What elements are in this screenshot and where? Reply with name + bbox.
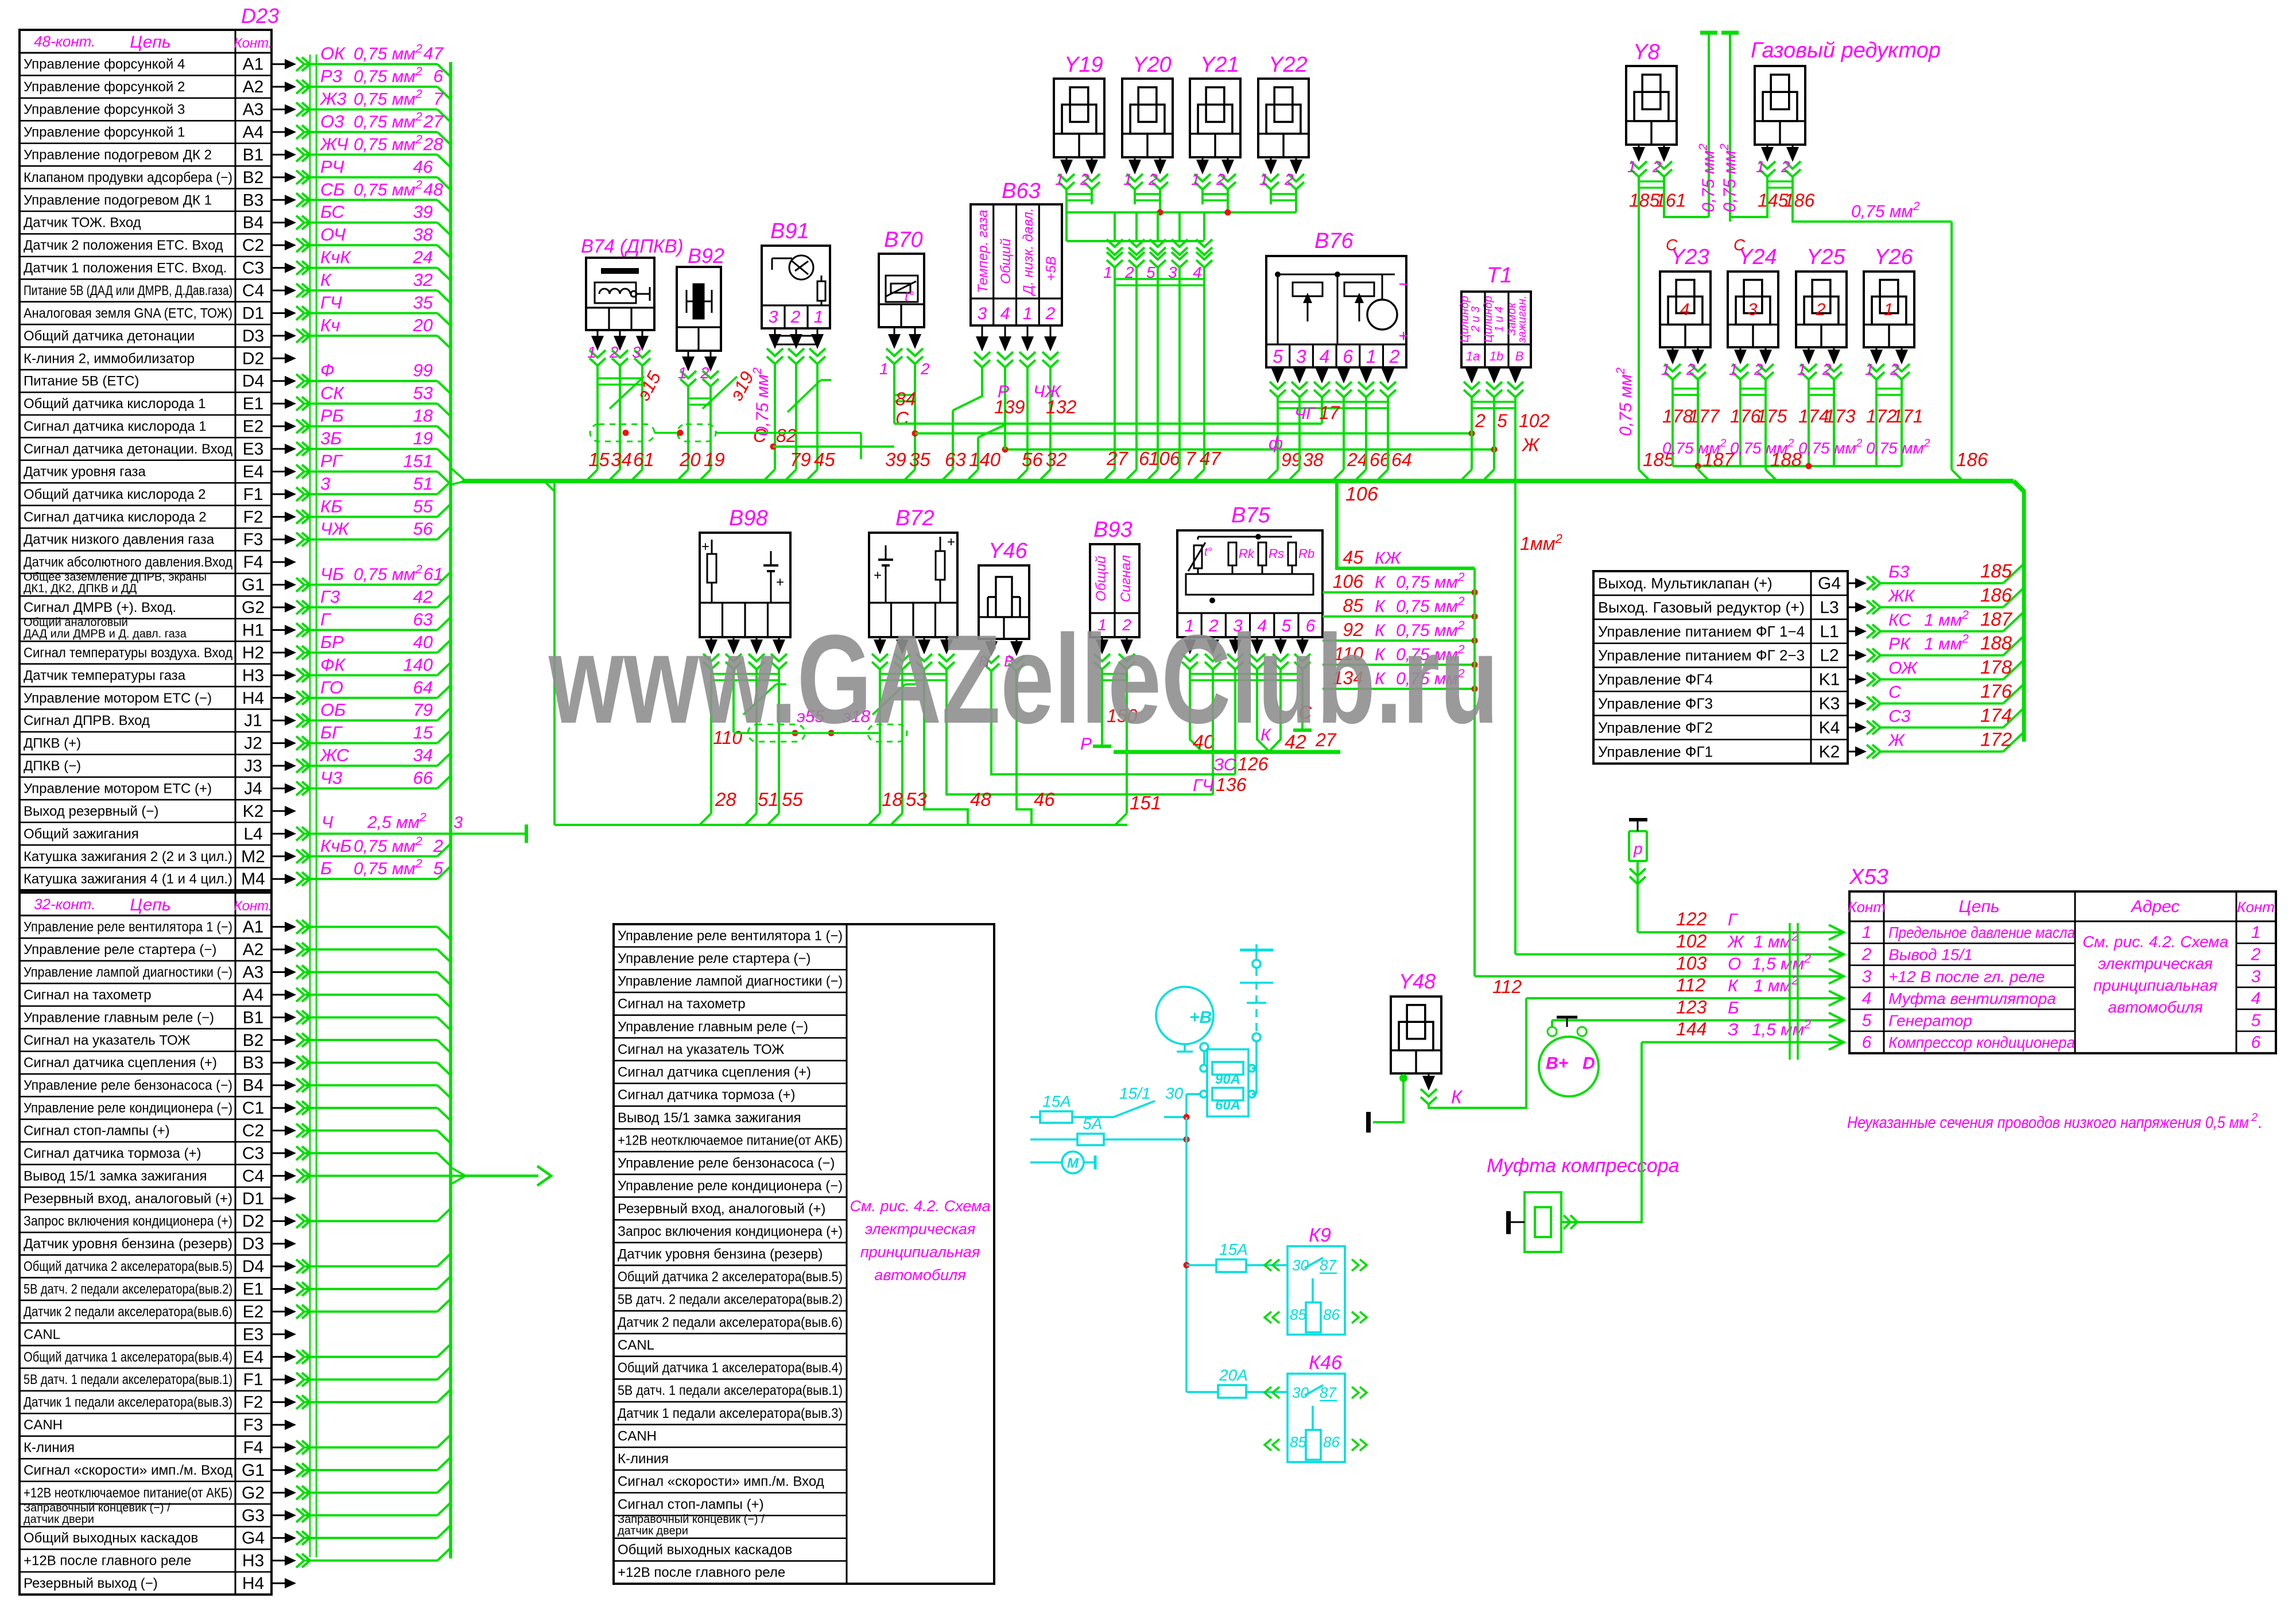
svg-text:Сигнал температуры воздуха. Вх: Сигнал температуры воздуха. Вход <box>24 645 232 661</box>
svg-text:3: 3 <box>769 308 778 327</box>
svg-text:В76: В76 <box>1314 229 1353 253</box>
svg-text:+12В после главного реле: +12В после главного реле <box>618 1565 785 1580</box>
svg-text:E1: E1 <box>243 394 264 413</box>
svg-text:Сигнал на тахометр: Сигнал на тахометр <box>618 997 746 1012</box>
svg-text:Темпер. газа: Темпер. газа <box>975 210 991 293</box>
svg-text:K1: K1 <box>1819 670 1840 689</box>
svg-text:Общее заземление ДПРВ, экраны: Общее заземление ДПРВ, экраны <box>24 571 207 584</box>
svg-text:+12В после главного реле: +12В после главного реле <box>24 1553 191 1569</box>
svg-text:Адрес: Адрес <box>2130 897 2180 916</box>
svg-text:3: 3 <box>320 474 330 494</box>
svg-text:15А: 15А <box>1042 1092 1071 1110</box>
svg-text:18: 18 <box>882 789 903 810</box>
svg-text:Rk: Rk <box>1239 546 1255 561</box>
svg-text:Сигнал «скорости» имп./м. Вход: Сигнал «скорости» имп./м. Вход <box>24 1463 232 1478</box>
svg-text:177: 177 <box>1689 406 1720 427</box>
svg-text:6: 6 <box>1343 346 1353 367</box>
svg-text:Управление лампой диагностики: Управление лампой диагностики (−) <box>24 964 232 980</box>
svg-text:G1: G1 <box>242 1461 265 1480</box>
svg-text:19: 19 <box>413 428 433 448</box>
svg-text:Катушка зажигания 2 (2 и 3 ци: Катушка зажигания 2 (2 и 3 цил.) <box>24 849 232 864</box>
svg-text:БР: БР <box>320 632 344 652</box>
svg-text:Заправочный концевик (−) /: Заправочный концевик (−) / <box>24 1502 170 1514</box>
svg-text:82: 82 <box>776 425 797 446</box>
svg-text:Управление питанием ФГ 2−3: Управление питанием ФГ 2−3 <box>1598 647 1805 664</box>
svg-text:Y19: Y19 <box>1064 53 1103 77</box>
svg-text:30: 30 <box>1292 1384 1309 1401</box>
svg-text:Муфта компрессора: Муфта компрессора <box>1487 1155 1680 1177</box>
svg-text:2: 2 <box>2251 1111 2258 1124</box>
svg-text:БГ: БГ <box>320 723 343 743</box>
svg-text:Датчик ТОЖ. Вход: Датчик ТОЖ. Вход <box>24 215 141 231</box>
svg-text:ЖК: ЖК <box>1887 587 1916 606</box>
svg-text:186: 186 <box>1784 190 1815 211</box>
svg-text:+12В неотключаемое питание(от: +12В неотключаемое питание(от АКБ) <box>618 1133 843 1148</box>
svg-text:Датчик 1 педали акселератора(в: Датчик 1 педали акселератора(выв.3) <box>618 1406 843 1421</box>
svg-text:Питание 5В (ЕТС): Питание 5В (ЕТС) <box>24 374 139 389</box>
svg-text:102: 102 <box>1519 410 1550 431</box>
svg-text:175: 175 <box>1756 406 1787 427</box>
svg-text:L2: L2 <box>1820 646 1839 665</box>
svg-text:188: 188 <box>1980 633 2012 654</box>
svg-text:4: 4 <box>2251 989 2261 1008</box>
svg-text:151: 151 <box>1130 792 1161 813</box>
svg-text:90А: 90А <box>1215 1072 1240 1087</box>
svg-text:3: 3 <box>632 343 641 361</box>
svg-text:38: 38 <box>1303 449 1324 470</box>
svg-text:Общий выходных каскадов: Общий выходных каскадов <box>24 1530 198 1546</box>
svg-text:Генератор: Генератор <box>1888 1011 1972 1029</box>
svg-text:39: 39 <box>413 202 433 222</box>
svg-text:66: 66 <box>413 767 433 788</box>
svg-text:20: 20 <box>413 315 433 335</box>
svg-text:0,75 мм2: 0,75 мм2 <box>1697 144 1718 212</box>
svg-text:G2: G2 <box>242 598 265 617</box>
svg-text:122: 122 <box>1676 909 1707 929</box>
svg-text:К-линия: К-линия <box>618 1451 669 1467</box>
svg-text:106: 106 <box>1345 483 1378 505</box>
svg-text:2: 2 <box>1475 410 1486 431</box>
svg-text:2: 2 <box>1045 304 1056 323</box>
svg-text:55: 55 <box>413 496 433 516</box>
svg-text:С: С <box>1733 236 1746 254</box>
svg-text:86: 86 <box>1323 1433 1340 1451</box>
svg-text:5В датч. 1 педали акселератора: 5В датч. 1 педали акселератора(выв.1) <box>24 1372 232 1387</box>
svg-text:42: 42 <box>413 587 433 607</box>
svg-text:датчик двери: датчик двери <box>618 1525 688 1537</box>
svg-text:К: К <box>1451 1087 1463 1107</box>
svg-text:ЖЧ: ЖЧ <box>319 134 348 154</box>
svg-text:В75: В75 <box>1231 503 1270 528</box>
svg-text:K3: K3 <box>1819 694 1840 713</box>
svg-text:5: 5 <box>1497 410 1507 431</box>
svg-text:85: 85 <box>1290 1306 1306 1323</box>
svg-text:E4: E4 <box>243 1348 264 1367</box>
svg-text:1: 1 <box>1191 170 1200 188</box>
svg-text:D2: D2 <box>242 349 264 368</box>
svg-text:Д. низк. давл.: Д. низк. давл. <box>1021 208 1036 296</box>
svg-text:H4: H4 <box>242 689 264 708</box>
svg-text:24: 24 <box>1347 449 1368 470</box>
svg-text:3: 3 <box>1296 346 1306 367</box>
svg-text:Датчик 2 педали акселератора(в: Датчик 2 педали акселератора(выв.6) <box>24 1304 232 1320</box>
svg-text:0,75 мм2: 0,75 мм2 <box>354 110 422 131</box>
svg-text:Управление главным реле (−): Управление главным реле (−) <box>618 1019 808 1034</box>
svg-text:G3: G3 <box>242 1506 265 1525</box>
svg-text:Управление реле вентилятора 1: Управление реле вентилятора 1 (−) <box>24 920 232 935</box>
svg-text:Кч: Кч <box>320 315 340 335</box>
svg-text:47: 47 <box>424 44 444 64</box>
svg-text:1b: 1b <box>1490 349 1503 363</box>
svg-text:В72: В72 <box>895 506 934 530</box>
svg-text:ЖС: ЖС <box>319 745 350 765</box>
svg-text:2: 2 <box>920 360 930 378</box>
svg-text:Муфта вентилятора: Муфта вентилятора <box>1888 990 2056 1007</box>
svg-text:электрическая: электрическая <box>2098 955 2213 972</box>
svg-text:Общий датчика кислорода 1: Общий датчика кислорода 1 <box>24 396 205 412</box>
svg-text:О3: О3 <box>320 111 344 131</box>
svg-text:6: 6 <box>433 66 444 86</box>
svg-text:принципиальная: принципиальная <box>2093 976 2217 994</box>
svg-text:E2: E2 <box>243 1302 264 1321</box>
svg-text:Сигнал: Сигнал <box>1118 555 1134 602</box>
svg-text:КС: КС <box>1888 611 1911 630</box>
svg-text:2: 2 <box>609 343 619 361</box>
svg-text:1: 1 <box>1627 158 1636 176</box>
svg-text:Общий зажигания: Общий зажигания <box>24 826 139 842</box>
svg-text:K2: K2 <box>1819 742 1840 761</box>
svg-text:2: 2 <box>1890 360 1899 378</box>
svg-text:186: 186 <box>1980 584 2012 606</box>
svg-text:B2: B2 <box>243 1031 264 1050</box>
svg-text:ФК: ФК <box>320 654 346 674</box>
svg-text:Управление ФГ1: Управление ФГ1 <box>1598 743 1713 760</box>
svg-text:Управление реле бензонасоса (−: Управление реле бензонасоса (−) <box>618 1156 835 1171</box>
svg-text:39: 39 <box>885 449 906 470</box>
svg-text:РГ: РГ <box>320 451 343 471</box>
svg-text:Сигнал ДПРВ. Вход: Сигнал ДПРВ. Вход <box>24 713 150 728</box>
svg-text:ОК: ОК <box>320 44 346 64</box>
svg-text:3Б: 3Б <box>320 428 342 448</box>
svg-text:Y21: Y21 <box>1200 53 1239 77</box>
svg-text:2: 2 <box>2251 945 2261 964</box>
svg-text:7: 7 <box>1185 448 1197 469</box>
svg-text:A4: A4 <box>243 986 264 1005</box>
svg-text:КЖ: КЖ <box>1375 549 1402 568</box>
svg-text:Y46: Y46 <box>988 539 1027 563</box>
svg-text:15А: 15А <box>1219 1240 1248 1258</box>
svg-text:Конт: Конт <box>1848 898 1886 916</box>
svg-text:Резервный вход, аналоговый (+): Резервный вход, аналоговый (+) <box>24 1191 232 1207</box>
svg-text:ОЖ: ОЖ <box>1888 659 1918 678</box>
svg-text:CANH: CANH <box>24 1417 63 1433</box>
svg-text:Сигнал ДМРВ (+). Вход.: Сигнал ДМРВ (+). Вход. <box>24 600 176 615</box>
svg-text:D3: D3 <box>242 1235 264 1254</box>
svg-text:Управление мотором ЕТС (+): Управление мотором ЕТС (+) <box>24 781 212 796</box>
svg-text:G2: G2 <box>242 1483 265 1502</box>
svg-text:Резервный вход, аналоговый (+): Резервный вход, аналоговый (+) <box>618 1201 825 1216</box>
svg-text:О: О <box>1728 955 1741 974</box>
svg-text:H3: H3 <box>242 666 264 685</box>
svg-text:L4: L4 <box>243 824 262 843</box>
svg-text:2: 2 <box>1216 170 1225 188</box>
svg-text:1: 1 <box>1661 360 1670 378</box>
svg-text:H4: H4 <box>242 1574 264 1593</box>
svg-text:Компрессор кондиционера: Компрессор кондиционера <box>1888 1034 2075 1052</box>
svg-text:Rs: Rs <box>1269 546 1284 561</box>
svg-text:G4: G4 <box>242 1529 265 1548</box>
svg-text:1,5 мм2: 1,5 мм2 <box>1752 952 1811 974</box>
svg-text:0,75 мм2: 0,75 мм2 <box>354 178 422 199</box>
svg-text:ДАД или ДМРВ и Д. давл. газа: ДАД или ДМРВ и Д. давл. газа <box>24 627 187 640</box>
svg-text:C4: C4 <box>242 1166 264 1185</box>
svg-text:J1: J1 <box>244 711 262 730</box>
svg-text:Датчик уровня бензина (резерв): Датчик уровня бензина (резерв) <box>618 1246 823 1262</box>
svg-text:5: 5 <box>2251 1011 2261 1030</box>
svg-text:Б: Б <box>320 858 332 878</box>
svg-text:Управление лампой диагностики: Управление лампой диагностики (−) <box>618 974 843 989</box>
svg-text:КчК: КчК <box>320 247 351 267</box>
svg-text:Сигнал на указатель ТОЖ: Сигнал на указатель ТОЖ <box>618 1042 784 1057</box>
svg-text:61: 61 <box>424 564 443 584</box>
svg-text:D23: D23 <box>241 4 279 28</box>
svg-text:2: 2 <box>1816 300 1826 319</box>
svg-text:Р3: Р3 <box>320 66 342 86</box>
svg-text:−: − <box>1398 275 1409 294</box>
svg-text:В74 (ДПКВ): В74 (ДПКВ) <box>581 235 683 257</box>
svg-text:D1: D1 <box>242 304 264 323</box>
svg-text:Ч3: Ч3 <box>320 767 342 788</box>
svg-text:H3: H3 <box>242 1552 264 1571</box>
svg-text:28: 28 <box>423 134 444 154</box>
svg-text:2: 2 <box>1686 360 1696 378</box>
svg-text:1: 1 <box>1023 304 1033 323</box>
svg-text:17: 17 <box>1319 402 1340 423</box>
svg-text:51: 51 <box>413 474 433 494</box>
svg-text:С: С <box>895 408 909 429</box>
svg-text:0,75 мм2: 0,75 мм2 <box>354 65 422 86</box>
svg-text:Г: Г <box>320 609 331 629</box>
svg-text:+12В неотключаемое питание(от: +12В неотключаемое питание(от АКБ) <box>24 1485 232 1501</box>
svg-text:40: 40 <box>413 632 433 652</box>
svg-text:Сигнал стоп-лампы (+): Сигнал стоп-лампы (+) <box>618 1496 764 1512</box>
svg-text:CANH: CANH <box>618 1428 657 1444</box>
svg-text:84: 84 <box>895 389 916 409</box>
svg-text:35: 35 <box>909 449 930 470</box>
svg-text:5: 5 <box>433 858 444 878</box>
svg-text:F3: F3 <box>243 530 263 549</box>
svg-text:B3: B3 <box>243 191 264 210</box>
svg-text:1: 1 <box>1123 170 1133 188</box>
svg-text:0,75 мм2: 0,75 мм2 <box>1718 144 1739 212</box>
svg-text:Управление реле кондиционера (: Управление реле кондиционера (−) <box>24 1100 232 1116</box>
svg-text:Ж3: Ж3 <box>319 89 347 109</box>
svg-text:автомобиля: автомобиля <box>874 1266 965 1284</box>
svg-text:СК: СК <box>320 383 344 403</box>
svg-text:D4: D4 <box>242 1257 264 1276</box>
svg-text:Сигнал датчика кислорода 2: Сигнал датчика кислорода 2 <box>24 509 207 525</box>
svg-text:32: 32 <box>1046 449 1067 470</box>
svg-text:t°: t° <box>1204 546 1212 559</box>
svg-text:139: 139 <box>994 397 1025 417</box>
svg-text:0,75 мм2: 0,75 мм2 <box>1798 437 1863 457</box>
svg-text:103: 103 <box>1676 953 1707 974</box>
svg-text:В98: В98 <box>729 506 768 530</box>
svg-text:В70: В70 <box>884 228 923 252</box>
svg-text:Датчик 2 положения ЕТС. Вход: Датчик 2 положения ЕТС. Вход <box>24 238 223 253</box>
svg-text:К9: К9 <box>1309 1224 1331 1246</box>
svg-text:45: 45 <box>814 449 835 470</box>
svg-text:B2: B2 <box>243 168 264 187</box>
svg-text:Y20: Y20 <box>1133 53 1172 77</box>
svg-text:t°: t° <box>905 289 914 304</box>
svg-text:64: 64 <box>1391 449 1412 470</box>
svg-text:С: С <box>753 425 767 446</box>
svg-text:1: 1 <box>1797 360 1806 378</box>
svg-text:ЧГ: ЧГ <box>1294 404 1317 423</box>
svg-text:L1: L1 <box>1820 622 1839 641</box>
svg-text:35: 35 <box>413 292 433 312</box>
svg-text:Управление реле бензонасоса (−: Управление реле бензонасоса (−) <box>24 1078 232 1094</box>
svg-text:E1: E1 <box>243 1280 264 1299</box>
svg-text:З: З <box>1728 1021 1738 1040</box>
svg-text:0,75 мм2: 0,75 мм2 <box>354 835 422 856</box>
svg-text:15: 15 <box>588 449 610 470</box>
svg-text:Датчик температуры газа: Датчик температуры газа <box>24 668 186 683</box>
svg-text:2: 2 <box>790 308 801 327</box>
svg-text:5: 5 <box>1862 1011 1872 1030</box>
svg-text:186: 186 <box>1956 449 1988 470</box>
svg-text:1: 1 <box>678 364 687 382</box>
svg-text:+: + <box>776 575 784 590</box>
svg-text:1: 1 <box>1366 346 1376 367</box>
svg-text:15/1: 15/1 <box>1119 1084 1151 1102</box>
svg-text:30: 30 <box>1165 1084 1184 1102</box>
svg-text:Запрос включения кондиционера: Запрос включения кондиционера (+) <box>618 1224 843 1239</box>
svg-text:датчик двери: датчик двери <box>24 1513 94 1526</box>
svg-text:Y22: Y22 <box>1269 53 1308 77</box>
svg-text:Управление форсункой 2: Управление форсункой 2 <box>24 79 185 95</box>
svg-text:В63: В63 <box>1002 179 1041 203</box>
svg-text:60А: 60А <box>1215 1098 1240 1113</box>
svg-text:86: 86 <box>1323 1306 1340 1323</box>
svg-text:1: 1 <box>1259 170 1269 188</box>
svg-text:48: 48 <box>970 789 991 810</box>
svg-text:176: 176 <box>1980 680 2012 701</box>
svg-text:79: 79 <box>413 700 433 720</box>
svg-text:КчБ: КчБ <box>320 836 352 856</box>
svg-text:Цепь: Цепь <box>130 33 170 52</box>
svg-text:Выход. Газовый редуктор (+): Выход. Газовый редуктор (+) <box>1598 599 1805 616</box>
svg-text:Сигнал датчика кислорода 1: Сигнал датчика кислорода 1 <box>24 419 207 435</box>
svg-text:+В: +В <box>1189 1008 1212 1027</box>
svg-text:.: . <box>2258 1114 2263 1132</box>
svg-text:L3: L3 <box>1820 598 1839 617</box>
svg-text:0,75 мм2: 0,75 мм2 <box>354 563 422 584</box>
svg-text:Сигнал датчика сцепления (+): Сигнал датчика сцепления (+) <box>618 1065 811 1080</box>
svg-text:5В датч. 1 педали акселератора: 5В датч. 1 педали акселератора(выв.1) <box>618 1383 843 1398</box>
svg-text:136: 136 <box>1216 774 1247 795</box>
svg-text:F1: F1 <box>243 485 263 504</box>
svg-text:F2: F2 <box>243 1393 263 1412</box>
svg-text:1 и 4: 1 и 4 <box>1493 307 1506 332</box>
svg-text:79: 79 <box>790 449 811 470</box>
svg-text:Датчик 1 педали акселератора(в: Датчик 1 педали акселератора(выв.3) <box>24 1395 232 1410</box>
svg-text:Общий датчика 1 акселератора(в: Общий датчика 1 акселератора(выв.4) <box>24 1350 232 1365</box>
svg-text:B1: B1 <box>243 1008 264 1027</box>
svg-text:J4: J4 <box>244 779 262 798</box>
svg-text:47: 47 <box>1200 448 1221 469</box>
svg-text:В+: В+ <box>1546 1054 1568 1073</box>
svg-text:1,5 мм2: 1,5 мм2 <box>1752 1018 1811 1040</box>
svg-text:ЗС: ЗС <box>1213 755 1236 774</box>
svg-text:Сигнал датчика детонации. Вход: Сигнал датчика детонации. Вход <box>24 441 232 457</box>
svg-text:7: 7 <box>433 89 444 109</box>
svg-text:6: 6 <box>2251 1033 2261 1052</box>
svg-text:1: 1 <box>2251 923 2261 942</box>
svg-text:4: 4 <box>1000 304 1010 323</box>
svg-text:Управление реле кондиционера (: Управление реле кондиционера (−) <box>618 1178 843 1194</box>
svg-text:Сигнал на указатель ТОЖ: Сигнал на указатель ТОЖ <box>24 1033 190 1048</box>
svg-text:102: 102 <box>1676 930 1707 951</box>
svg-text:+: + <box>947 534 955 550</box>
svg-text:A2: A2 <box>243 77 264 96</box>
svg-text:Общий выходных каскадов: Общий выходных каскадов <box>618 1542 792 1558</box>
svg-text:Управление форсункой 4: Управление форсункой 4 <box>24 57 185 72</box>
svg-text:Ф: Ф <box>320 360 335 381</box>
svg-text:30: 30 <box>1292 1257 1309 1274</box>
svg-text:Датчик 1 положения ЕТС. Вход.: Датчик 1 положения ЕТС. Вход. <box>24 261 227 276</box>
svg-text:Управление ФГ4: Управление ФГ4 <box>1598 671 1713 688</box>
svg-text:В92: В92 <box>688 244 724 267</box>
svg-text:Управление реле стартера (−): Управление реле стартера (−) <box>24 942 216 957</box>
svg-text:187: 187 <box>1702 449 1735 470</box>
svg-text:См. рис. 4.2. Схема: См. рис. 4.2. Схема <box>2082 933 2228 951</box>
svg-text:СБ: СБ <box>320 179 345 199</box>
svg-text:зажиган.: зажиган. <box>1516 296 1529 343</box>
svg-text:34: 34 <box>413 745 433 765</box>
svg-text:48: 48 <box>424 179 444 199</box>
svg-text:2: 2 <box>1284 170 1294 188</box>
svg-text:Управление мотором ЕТС (−): Управление мотором ЕТС (−) <box>24 691 212 706</box>
svg-text:В: В <box>1515 349 1524 363</box>
svg-text:Неуказанные сечения проводов н: Неуказанные сечения проводов низкого нап… <box>1847 1114 2249 1132</box>
svg-text:Общий датчика детонации: Общий датчика детонации <box>24 328 195 344</box>
svg-text:Б3: Б3 <box>1888 563 1910 581</box>
svg-text:1: 1 <box>1884 300 1894 319</box>
svg-text:5: 5 <box>1273 346 1283 367</box>
svg-text:2: 2 <box>1148 170 1158 188</box>
svg-text:Ж: Ж <box>1727 932 1744 951</box>
svg-text:5А: 5А <box>1083 1115 1102 1133</box>
svg-text:161: 161 <box>1655 190 1686 211</box>
svg-text:K4: K4 <box>1819 718 1840 737</box>
svg-text:Цепь: Цепь <box>130 895 170 914</box>
svg-text:К46: К46 <box>1309 1352 1342 1374</box>
svg-text:ДПКВ (+): ДПКВ (+) <box>24 736 81 751</box>
svg-text:Y48: Y48 <box>1399 970 1436 993</box>
svg-text:Заправочный концевик (−) /: Заправочный концевик (−) / <box>618 1513 765 1526</box>
svg-text:D2: D2 <box>242 1212 264 1231</box>
svg-text:4: 4 <box>1320 346 1330 367</box>
svg-text:46: 46 <box>1034 789 1055 810</box>
svg-text:B3: B3 <box>243 1053 264 1072</box>
svg-text:2: 2 <box>1861 945 1872 964</box>
svg-text:15: 15 <box>413 723 433 743</box>
svg-text:64: 64 <box>413 677 433 697</box>
svg-text:Резервный выход (−): Резервный выход (−) <box>24 1576 158 1591</box>
svg-text:140: 140 <box>969 449 1001 470</box>
